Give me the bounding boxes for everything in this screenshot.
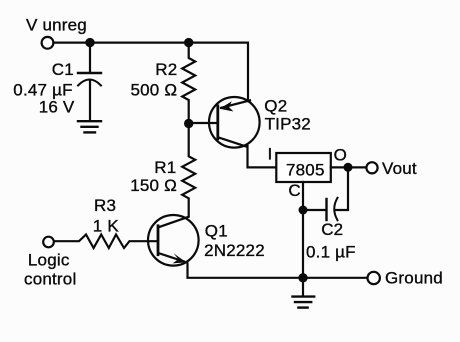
capacitor C1 [78,73,101,121]
resistor R2 [182,43,195,124]
svg-text:Ground: Ground [385,268,443,287]
wire top rail [54,43,249,100]
svg-text:TIP32: TIP32 [265,115,311,134]
terminal Ground [368,272,380,284]
wire C2 junction down to ground rail [302,210,304,278]
svg-text:I: I [268,145,273,164]
terminal Vout [366,162,377,173]
svg-text:7805: 7805 [286,160,325,179]
ground (C1) [78,121,101,132]
svg-text:O: O [334,146,347,165]
node C1 tap [85,38,94,47]
wire C2 left lead [303,209,326,211]
wire Q2 collector to regulator input [248,146,277,167]
capacitor C2 [327,198,338,220]
svg-text:1 K: 1 K [93,217,120,236]
svg-text:2N2222: 2N2222 [204,241,265,260]
node C2 junction [299,206,308,215]
svg-text:control: control [24,270,76,289]
regulator U1 7805 [276,153,331,182]
svg-text:Logic: Logic [28,250,70,269]
terminal V unreg [42,37,54,49]
svg-text:Q2: Q2 [264,97,287,116]
wire Q2 base lead [189,122,218,124]
ground (rail) [293,297,315,308]
resistor R3 [55,235,159,249]
resistor R1 [182,124,195,217]
wire regulator output [331,166,367,168]
svg-text:500 Ω: 500 Ω [131,80,178,99]
svg-text:Vout: Vout [382,159,417,178]
svg-text:16 V: 16 V [39,97,75,116]
svg-text:C: C [288,181,300,200]
wire regulator common lead [302,182,304,210]
svg-text:150 Ω: 150 Ω [130,176,177,195]
wire Q1 emitter to ground rail [188,264,368,278]
transistor Q2 [209,97,260,148]
node Vout junction [344,163,353,172]
wire ground stub [302,278,304,296]
node ground junction [298,273,307,282]
svg-text:C2: C2 [321,220,343,239]
node R2/R1/Q2-base junction [184,119,193,128]
node R2 tap [184,38,193,47]
svg-text:R3: R3 [94,196,116,215]
svg-text:C1: C1 [52,60,74,79]
wire C1 top lead [89,43,91,72]
svg-text:V unreg: V unreg [26,16,87,35]
terminal Logic control [43,237,54,248]
svg-text:R1: R1 [154,158,176,177]
svg-text:Q1: Q1 [205,221,228,240]
wire C2 right lead to Vout node [336,167,348,210]
svg-text:0.1 µF: 0.1 µF [306,242,356,261]
transistor Q1 [148,215,199,266]
svg-text:R2: R2 [155,60,177,79]
